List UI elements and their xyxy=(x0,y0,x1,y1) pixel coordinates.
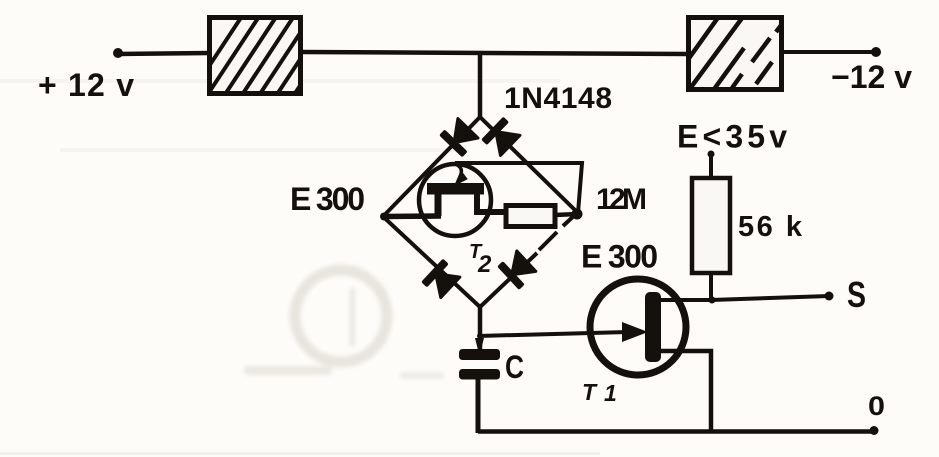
wire: bridge bottom to T1 gate xyxy=(478,332,628,336)
transistor T1 (FET E300) body circle xyxy=(590,279,686,375)
fuse box F1 (hatched) xyxy=(188,4,346,110)
transistor T1 drain lead xyxy=(655,298,713,302)
resistor R2 56k xyxy=(692,178,730,273)
capacitor C top plate xyxy=(459,349,500,360)
node: gate junction xyxy=(477,333,483,339)
diode D3 (bottom-left, 1N4148) xyxy=(421,259,461,299)
diode D2 (top-right, 1N4148) xyxy=(481,117,521,157)
svg-text:E 300: E 300 xyxy=(290,181,365,217)
wire: bottom rail (0 net) xyxy=(478,429,874,434)
wire: F2 to -12V terminal xyxy=(784,50,876,54)
transistor T1 source lead xyxy=(655,351,711,433)
svg-text:+ 12 v: + 12 v xyxy=(38,67,134,103)
svg-text:−12 v: −12 v xyxy=(831,59,912,95)
wire: top rail from F1 to F2 xyxy=(302,52,688,54)
wire: capacitor to bottom rail xyxy=(476,379,481,433)
wire: vertical drop from top rail to bridge top vertex xyxy=(478,52,483,118)
svg-text:12M: 12M xyxy=(596,183,647,216)
svg-text:S: S xyxy=(847,274,866,315)
wire: bridge bottom vertex down to capacitor xyxy=(478,307,483,350)
transistor T2 gate arrow xyxy=(455,164,467,185)
terminal 0 xyxy=(870,426,879,435)
capacitor C lead taper xyxy=(475,338,484,350)
bridge edge: top vertex to left vertex xyxy=(383,117,480,217)
bridge edge: bottom vertex to right vertex (broken/dashed) xyxy=(480,213,577,307)
svg-text:1: 1 xyxy=(604,380,617,406)
node: left bridge vertex xyxy=(380,213,388,221)
terminal -12V xyxy=(871,47,881,57)
svg-text:T: T xyxy=(582,379,598,405)
fuse box F2 (hatched) xyxy=(672,10,788,94)
wire: R1 to right bridge vertex xyxy=(555,214,577,215)
transistor T2 source leg xyxy=(435,194,442,216)
svg-text:2: 2 xyxy=(477,251,492,278)
wire: left bridge vertex to T2 source xyxy=(383,213,441,219)
scan stripe artifacts xyxy=(0,79,600,455)
svg-text:E 300: E 300 xyxy=(581,239,658,275)
diode D1 (top-left, 1N4148) xyxy=(439,117,479,157)
wire: +12V lead to fuse box F1 xyxy=(118,53,210,54)
node: drain junction xyxy=(709,297,716,304)
bridge edge: left vertex to bottom vertex xyxy=(383,217,480,308)
transistor T2 drain leg xyxy=(477,194,504,212)
label T1 xyxy=(582,379,617,406)
bridge edge: top vertex to right vertex xyxy=(480,117,578,213)
svg-text:0: 0 xyxy=(868,391,885,421)
transistor T2 channel bar xyxy=(427,183,484,195)
diode D4 (bottom-right, 1N4148) xyxy=(497,249,537,289)
wire: E terminal to resistor R2 xyxy=(709,154,713,180)
terminal S xyxy=(825,292,834,301)
transistor T2 (FET E300) body circle xyxy=(419,164,491,236)
transistor T1 channel bar xyxy=(645,292,661,362)
terminal E supply xyxy=(708,151,715,158)
wire: drain node to S terminal xyxy=(711,296,829,300)
wire: T2 gate to right bridge vertex xyxy=(455,163,582,213)
svg-text:56 k: 56 k xyxy=(738,211,803,243)
node: right bridge vertex xyxy=(572,209,583,220)
capacitor C bottom plate xyxy=(459,369,500,380)
svg-text:C: C xyxy=(505,349,524,385)
svg-text:E<35v: E<35v xyxy=(677,119,787,155)
transistor T1 gate arrowhead xyxy=(622,322,648,342)
svg-text:1N4148: 1N4148 xyxy=(504,82,612,115)
label T2 xyxy=(469,241,492,278)
wire: R2 bottom to drain node xyxy=(709,273,713,302)
watermark (faint scan artifact circle) xyxy=(244,270,444,379)
resistor R1 12M xyxy=(506,206,555,227)
terminal +12V xyxy=(113,48,123,58)
